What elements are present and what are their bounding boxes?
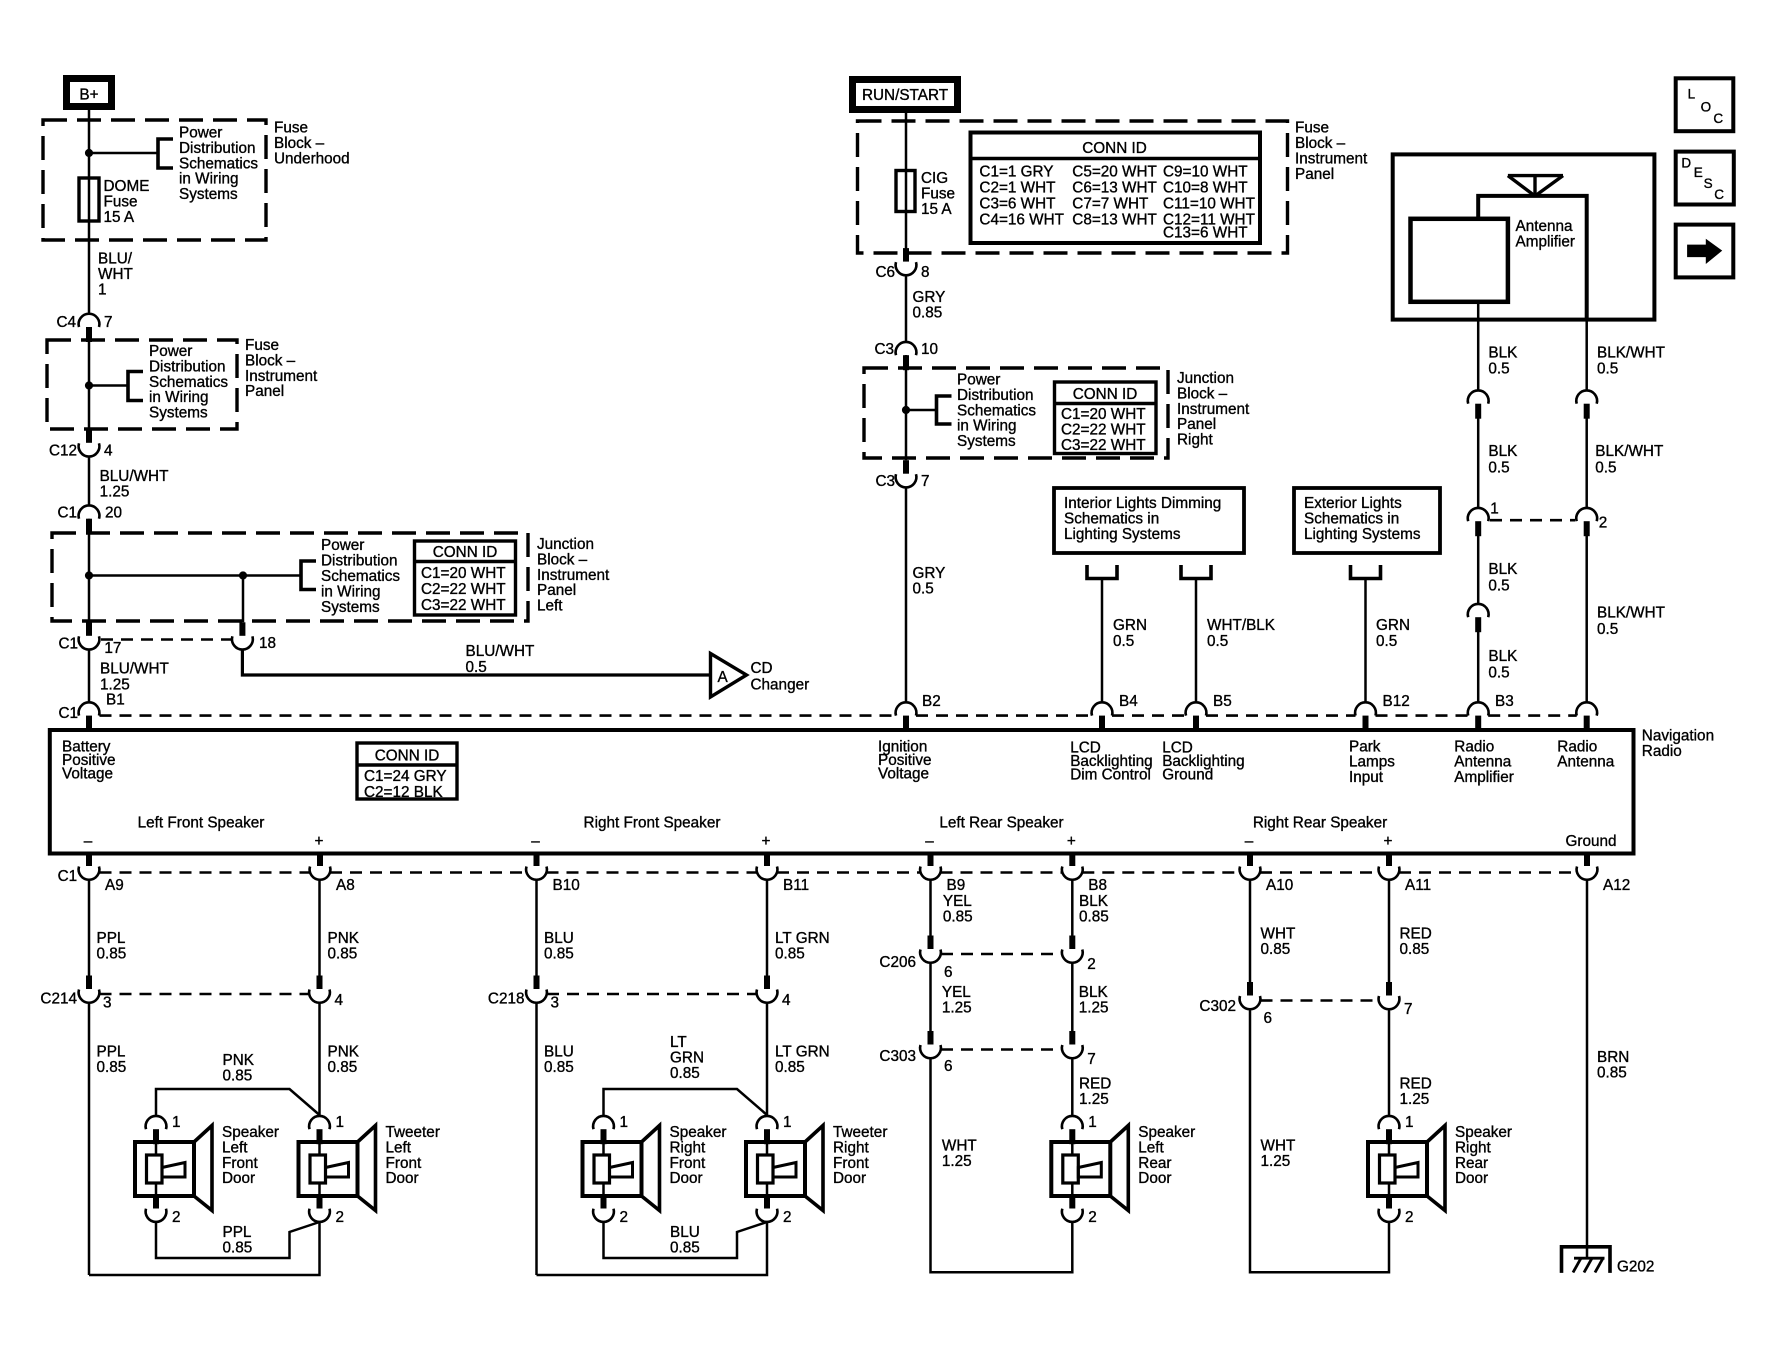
wire RED 1.25 to left rear speaker bbox=[1071, 1058, 1074, 1115]
connector C1 pin 20 bbox=[79, 505, 100, 518]
connector C302 pin 7 bbox=[1386, 982, 1392, 996]
svg-text:C5=20 WHT: C5=20 WHT bbox=[1072, 163, 1157, 180]
svg-text:Systems: Systems bbox=[321, 599, 380, 616]
svg-text:BLU: BLU bbox=[670, 1224, 700, 1241]
svg-text:BLK: BLK bbox=[1488, 443, 1518, 460]
svg-text:RED: RED bbox=[1400, 926, 1432, 943]
svg-text:0.5: 0.5 bbox=[1595, 460, 1616, 477]
svg-text:0.85: 0.85 bbox=[223, 1068, 253, 1085]
wire A11 drop bbox=[1388, 880, 1391, 982]
power node B+ bbox=[67, 79, 112, 107]
svg-text:C1=20 WHT: C1=20 WHT bbox=[421, 565, 506, 582]
svg-text:0.85: 0.85 bbox=[97, 946, 127, 963]
box Exterior Lights Schematics bbox=[1294, 488, 1440, 553]
speaker pin 2 connector (Tweeter Left Front Door) bbox=[317, 1196, 323, 1209]
wire BLU minus to bottom bbox=[535, 1003, 538, 1275]
svg-text:PPL: PPL bbox=[97, 1043, 126, 1060]
connector B5 at radio bbox=[1186, 702, 1207, 715]
wire BLK from amplifier bbox=[1477, 302, 1480, 391]
connector A9 at radio bbox=[79, 867, 100, 880]
svg-text:6: 6 bbox=[1264, 1010, 1273, 1027]
LOC page icon bbox=[1676, 78, 1734, 131]
svg-text:Left: Left bbox=[537, 598, 563, 615]
svg-text:C8=13 WHT: C8=13 WHT bbox=[1072, 211, 1157, 228]
svg-text:GRN: GRN bbox=[1376, 617, 1410, 634]
svg-text:Lighting Systems: Lighting Systems bbox=[1304, 526, 1421, 543]
svg-text:0.5: 0.5 bbox=[1488, 578, 1509, 595]
svg-text:YEL: YEL bbox=[943, 893, 972, 910]
fuse DOME 15 A bbox=[79, 178, 99, 221]
reference bracket (underhood) bbox=[158, 139, 173, 168]
svg-text:D: D bbox=[1681, 156, 1691, 171]
connector C214 pin 3 bbox=[86, 976, 92, 990]
connector B3 at radio bbox=[1468, 702, 1489, 715]
svg-text:Left Front Speaker: Left Front Speaker bbox=[138, 815, 265, 832]
svg-text:Door: Door bbox=[386, 1170, 419, 1187]
svg-text:1.25: 1.25 bbox=[1079, 1091, 1109, 1108]
connector staple B5 bbox=[1181, 565, 1211, 579]
svg-text:0.5: 0.5 bbox=[1207, 633, 1228, 650]
box Interior Lights Dimming Schematics bbox=[1054, 488, 1244, 553]
svg-text:2: 2 bbox=[172, 1209, 181, 1226]
svg-text:C: C bbox=[1714, 187, 1724, 202]
CONN ID table (radio) bbox=[357, 743, 457, 799]
connector (BLK) row 1 bbox=[1468, 390, 1489, 403]
power node RUN/START bbox=[853, 80, 958, 110]
connector B1 at radio bbox=[79, 702, 100, 715]
connector pin 2 (BLK/WHT) bbox=[1576, 508, 1597, 521]
wire C12 to C1 bbox=[88, 457, 91, 506]
connector A12 at radio bbox=[1577, 867, 1598, 880]
svg-text:Systems: Systems bbox=[957, 433, 1016, 450]
svg-text:Dim Control: Dim Control bbox=[1070, 767, 1151, 784]
svg-text:1.25: 1.25 bbox=[1400, 1091, 1430, 1108]
svg-text:0.85: 0.85 bbox=[223, 1240, 253, 1257]
svg-text:A12: A12 bbox=[1603, 877, 1630, 894]
connector pin 1 (BLK) bbox=[1468, 508, 1489, 521]
svg-text:BLU: BLU bbox=[544, 1043, 574, 1060]
svg-text:1: 1 bbox=[783, 1114, 792, 1131]
navigation radio box bbox=[50, 730, 1634, 854]
svg-text:–: – bbox=[1245, 833, 1254, 850]
svg-text:PNK: PNK bbox=[223, 1052, 255, 1069]
connector B9 at radio bbox=[920, 867, 941, 880]
svg-text:PNK: PNK bbox=[328, 1043, 360, 1060]
svg-text:0.85: 0.85 bbox=[913, 305, 943, 322]
wire branch down to terminal 18 bbox=[242, 576, 245, 623]
svg-text:C3=22 WHT: C3=22 WHT bbox=[421, 597, 506, 614]
connector B2 at radio bbox=[896, 702, 917, 715]
svg-text:A9: A9 bbox=[105, 877, 124, 894]
speaker pin 2 connector (Speaker Right Front Door) bbox=[601, 1196, 607, 1209]
svg-text:Door: Door bbox=[1138, 1170, 1171, 1187]
wire branch to reference (IP fuse block) bbox=[89, 384, 128, 387]
svg-text:C1: C1 bbox=[57, 505, 77, 522]
svg-text:0.5: 0.5 bbox=[1488, 361, 1509, 378]
svg-text:7: 7 bbox=[1404, 1001, 1413, 1018]
wire BLU minus drop bbox=[535, 880, 538, 976]
svg-text:RUN/START: RUN/START bbox=[862, 87, 948, 104]
wire A10 drop bbox=[1249, 880, 1252, 982]
wire branch to power distribution reference bbox=[89, 152, 158, 155]
svg-text:0.85: 0.85 bbox=[1400, 941, 1430, 958]
speaker pin 2 connector (Speaker Left Front Door) bbox=[153, 1196, 159, 1209]
speaker pin 1 connector (Speaker Right Front Door) bbox=[593, 1116, 614, 1129]
svg-text:RED: RED bbox=[1079, 1076, 1111, 1093]
svg-text:BLU/: BLU/ bbox=[98, 251, 133, 268]
svg-text:4: 4 bbox=[335, 992, 344, 1009]
wire PPL minus drop bbox=[88, 880, 91, 976]
svg-text:CONN ID: CONN ID bbox=[1073, 386, 1138, 403]
svg-text:CONN ID: CONN ID bbox=[375, 748, 440, 765]
svg-text:4: 4 bbox=[104, 442, 113, 459]
svg-text:C12: C12 bbox=[49, 442, 77, 459]
svg-text:0.5: 0.5 bbox=[1113, 633, 1134, 650]
connector C6 pin 8 bbox=[896, 262, 917, 275]
svg-text:B8: B8 bbox=[1088, 877, 1107, 894]
svg-text:B+: B+ bbox=[79, 87, 98, 104]
svg-text:0.85: 0.85 bbox=[670, 1065, 700, 1082]
svg-text:3: 3 bbox=[103, 995, 112, 1012]
speaker pin 1 connector (Speaker Left Rear Door) bbox=[1062, 1116, 1083, 1129]
svg-text:Right: Right bbox=[1177, 432, 1213, 449]
jumper wire woofer pin2 to tweeter pin2 bbox=[604, 1222, 768, 1258]
svg-text:2: 2 bbox=[1088, 1209, 1097, 1226]
junction node B (junction block left) bbox=[239, 571, 247, 579]
svg-text:0.5: 0.5 bbox=[1597, 361, 1618, 378]
wire B4 down to radio bbox=[1101, 579, 1104, 703]
svg-text:Right Rear Speaker: Right Rear Speaker bbox=[1253, 815, 1387, 832]
svg-text:Changer: Changer bbox=[751, 676, 810, 693]
svg-text:B12: B12 bbox=[1383, 693, 1410, 710]
svg-text:WHT: WHT bbox=[942, 1138, 977, 1155]
svg-text:17: 17 bbox=[104, 640, 121, 657]
svg-text:C10=8 WHT: C10=8 WHT bbox=[1163, 179, 1248, 196]
svg-text:+: + bbox=[762, 833, 771, 850]
svg-text:GRN: GRN bbox=[670, 1050, 704, 1067]
svg-text:2: 2 bbox=[1599, 514, 1608, 531]
svg-text:C13=6 WHT: C13=6 WHT bbox=[1163, 225, 1248, 242]
speaker Tweeter Left Front Door bbox=[299, 1142, 358, 1196]
svg-text:CD: CD bbox=[751, 660, 773, 677]
CONN ID table (IP fuse block) bbox=[971, 133, 1261, 244]
wire B12 down to radio bbox=[1364, 579, 1367, 703]
svg-text:B4: B4 bbox=[1119, 693, 1138, 710]
svg-text:7: 7 bbox=[921, 473, 930, 490]
svg-text:C3: C3 bbox=[874, 341, 894, 358]
speaker pin 2 connector (Tweeter Right Front Door) bbox=[764, 1196, 770, 1209]
wire B5 down to radio bbox=[1195, 579, 1198, 703]
svg-text:C11=10 WHT: C11=10 WHT bbox=[1163, 195, 1255, 212]
svg-text:B3: B3 bbox=[1495, 693, 1514, 710]
svg-text:BLU/WHT: BLU/WHT bbox=[466, 643, 535, 660]
svg-text:B10: B10 bbox=[553, 877, 580, 894]
DESC page icon bbox=[1676, 152, 1734, 205]
svg-text:C6: C6 bbox=[875, 264, 895, 281]
svg-text:WHT: WHT bbox=[1261, 1138, 1296, 1155]
svg-text:1: 1 bbox=[1088, 1114, 1097, 1131]
svg-text:GRN: GRN bbox=[1113, 617, 1147, 634]
connector B12 at radio bbox=[1355, 702, 1376, 715]
svg-text:C1=20 WHT: C1=20 WHT bbox=[1061, 406, 1146, 423]
svg-text:10: 10 bbox=[921, 341, 938, 358]
svg-text:LT GRN: LT GRN bbox=[775, 1043, 830, 1060]
svg-text:C218: C218 bbox=[488, 991, 525, 1008]
svg-text:0.85: 0.85 bbox=[544, 946, 574, 963]
svg-text:A: A bbox=[718, 669, 729, 686]
dashed connector link C303 bbox=[941, 1048, 1062, 1051]
fuse CIG 15 A bbox=[896, 171, 915, 212]
svg-text:Amplifier: Amplifier bbox=[1454, 769, 1514, 786]
svg-text:–: – bbox=[531, 833, 540, 850]
arrow page icon bbox=[1676, 225, 1734, 278]
svg-text:LT GRN: LT GRN bbox=[775, 930, 830, 947]
wire BLK between connectors bbox=[1477, 418, 1480, 509]
wire BLK/WHT to radio antenna input bbox=[1585, 536, 1588, 703]
return wire bottom to tweeter pin 2 bbox=[537, 1222, 768, 1275]
svg-text:20: 20 bbox=[105, 505, 122, 522]
wire PNK to tweeter pin 1 bbox=[318, 1003, 321, 1115]
svg-text:1: 1 bbox=[1490, 501, 1499, 518]
svg-text:1.25: 1.25 bbox=[942, 1153, 972, 1170]
svg-text:BLK: BLK bbox=[1079, 984, 1109, 1001]
wire across junction block left bbox=[89, 574, 301, 577]
svg-text:BLK: BLK bbox=[1488, 345, 1518, 362]
CD changer off-page triangle A bbox=[711, 654, 747, 698]
svg-text:2: 2 bbox=[1405, 1209, 1414, 1226]
svg-text:C1=24 GRY: C1=24 GRY bbox=[364, 768, 447, 785]
connector C218 pin 4 bbox=[764, 976, 770, 990]
svg-text:0.85: 0.85 bbox=[775, 1059, 805, 1076]
svg-text:15 A: 15 A bbox=[104, 209, 135, 226]
connector staple B4 bbox=[1087, 565, 1117, 579]
fuse block instrument panel (dashed) bbox=[47, 340, 237, 429]
speaker pin 1 connector (Speaker Right Rear Door) bbox=[1379, 1116, 1400, 1129]
antenna amplifier inner module outline bbox=[1478, 196, 1587, 320]
ground symbol G202 bbox=[1562, 1247, 1611, 1273]
wire A12 to ground bbox=[1586, 880, 1589, 1258]
wire WHT 1.25 right rear minus bbox=[1250, 1009, 1389, 1272]
svg-text:BLK/WHT: BLK/WHT bbox=[1595, 443, 1663, 460]
svg-text:2: 2 bbox=[336, 1209, 345, 1226]
fuse block underhood (dashed) bbox=[43, 120, 266, 240]
svg-text:O: O bbox=[1701, 100, 1712, 115]
svg-text:Panel: Panel bbox=[245, 383, 284, 400]
svg-text:Door: Door bbox=[670, 1170, 703, 1187]
speaker pin 2 connector (Speaker Right Rear Door) bbox=[1386, 1196, 1392, 1209]
dashed connector link C302 bbox=[1261, 999, 1379, 1002]
svg-text:Right Front Speaker: Right Front Speaker bbox=[584, 815, 721, 832]
svg-text:BLK: BLK bbox=[1488, 561, 1518, 578]
svg-text:Door: Door bbox=[833, 1170, 866, 1187]
svg-text:PNK: PNK bbox=[328, 930, 360, 947]
svg-text:C302: C302 bbox=[1199, 998, 1236, 1015]
svg-text:0.5: 0.5 bbox=[1597, 621, 1618, 638]
wire C6 to C3 bbox=[905, 276, 908, 342]
junction node in IP fuse block bbox=[85, 381, 93, 389]
wire B9 drop bbox=[929, 880, 932, 936]
svg-text:B5: B5 bbox=[1213, 693, 1232, 710]
svg-text:WHT: WHT bbox=[98, 266, 133, 283]
svg-text:BLK: BLK bbox=[1488, 648, 1518, 665]
svg-text:C: C bbox=[1713, 111, 1723, 126]
connector C3 pin 7 bbox=[896, 474, 917, 487]
speaker pin 1 connector (Tweeter Left Front Door) bbox=[309, 1116, 330, 1129]
svg-text:1.25: 1.25 bbox=[1261, 1153, 1291, 1170]
svg-text:1.25: 1.25 bbox=[942, 1000, 972, 1017]
svg-text:1: 1 bbox=[1405, 1114, 1414, 1131]
svg-text:C3=6 WHT: C3=6 WHT bbox=[979, 195, 1055, 212]
connector C206 pin 6 bbox=[928, 936, 934, 950]
dashed connector link 1-2 bbox=[1490, 519, 1575, 522]
svg-text:0.85: 0.85 bbox=[1597, 1065, 1627, 1082]
svg-text:0.5: 0.5 bbox=[1488, 460, 1509, 477]
svg-text:0.85: 0.85 bbox=[97, 1059, 127, 1076]
svg-text:7: 7 bbox=[1087, 1051, 1096, 1068]
svg-text:Left Rear Speaker: Left Rear Speaker bbox=[939, 815, 1063, 832]
svg-text:BLK/WHT: BLK/WHT bbox=[1597, 605, 1665, 622]
svg-text:Underhood: Underhood bbox=[274, 151, 350, 168]
connector C303 pin 7 bbox=[1069, 1031, 1075, 1045]
svg-text:–: – bbox=[925, 833, 934, 850]
svg-text:WHT: WHT bbox=[1261, 926, 1296, 943]
wire LT GRN plus drop bbox=[766, 880, 769, 976]
svg-text:C3: C3 bbox=[875, 473, 895, 490]
svg-text:C4: C4 bbox=[56, 314, 76, 331]
wire RUN/START down through IP fuse block bbox=[905, 113, 908, 250]
junction node (junction block right) bbox=[902, 406, 910, 414]
jumper wire tweeter pin1 to woofer pin1 bbox=[156, 1089, 320, 1115]
svg-text:B11: B11 bbox=[783, 877, 809, 894]
svg-text:Panel: Panel bbox=[1295, 166, 1334, 183]
svg-text:B9: B9 bbox=[947, 877, 966, 894]
wire C3-7 to radio B2 bbox=[905, 488, 908, 703]
wire PNK plus drop bbox=[318, 880, 321, 976]
svg-text:A8: A8 bbox=[336, 877, 355, 894]
svg-text:GRY: GRY bbox=[913, 289, 946, 306]
svg-text:GRY: GRY bbox=[913, 565, 946, 582]
reference bracket (junction block left) bbox=[301, 561, 316, 590]
wire BLK to inline connector bbox=[1477, 536, 1480, 606]
svg-text:4: 4 bbox=[782, 992, 791, 1009]
svg-text:Antenna: Antenna bbox=[1557, 754, 1614, 771]
speaker pin 2 connector (Speaker Left Rear Door) bbox=[1069, 1196, 1075, 1209]
junction block instrument panel left (dashed) bbox=[52, 533, 528, 621]
wire BLK 1.25 bbox=[1071, 963, 1074, 1031]
svg-text:C1=1 GRY: C1=1 GRY bbox=[979, 163, 1053, 180]
svg-text:C1: C1 bbox=[58, 635, 78, 652]
return wire bottom to tweeter pin 2 bbox=[89, 1222, 320, 1275]
dashed bus line above radio bbox=[100, 714, 897, 717]
svg-text:0.85: 0.85 bbox=[1079, 909, 1109, 926]
svg-text:1.25: 1.25 bbox=[100, 484, 130, 501]
dashed bus line below radio bbox=[100, 871, 311, 874]
connector C302 pin 6 bbox=[1247, 982, 1253, 996]
connector terminal 18 bbox=[232, 636, 253, 649]
connector C4 pin 7 bbox=[79, 314, 100, 327]
antenna amplifier outer box bbox=[1393, 154, 1655, 319]
svg-text:BLU: BLU bbox=[544, 930, 574, 947]
connector C303 pin 6 bbox=[928, 1031, 934, 1045]
dashed connector link C218 bbox=[547, 993, 757, 996]
svg-text:8: 8 bbox=[921, 264, 930, 281]
svg-text:BLK/WHT: BLK/WHT bbox=[1597, 345, 1665, 362]
wire BLK/WHT between connectors bbox=[1585, 418, 1588, 509]
svg-text:L: L bbox=[1688, 86, 1696, 101]
svg-text:0.5: 0.5 bbox=[466, 659, 487, 676]
wire through junction block left bbox=[88, 519, 91, 623]
svg-text:C2=22 WHT: C2=22 WHT bbox=[421, 581, 506, 598]
svg-text:Amplifier: Amplifier bbox=[1516, 233, 1576, 250]
connector A8 at radio bbox=[310, 867, 331, 880]
svg-text:1: 1 bbox=[620, 1114, 629, 1131]
svg-text:PPL: PPL bbox=[97, 930, 126, 947]
svg-text:18: 18 bbox=[259, 635, 276, 652]
svg-text:2: 2 bbox=[620, 1209, 629, 1226]
speaker pin 1 connector (Tweeter Right Front Door) bbox=[757, 1116, 778, 1129]
svg-text:0.5: 0.5 bbox=[1488, 665, 1509, 682]
svg-text:Radio: Radio bbox=[1642, 743, 1682, 760]
svg-text:CONN ID: CONN ID bbox=[1082, 140, 1147, 157]
CONN ID table (junction block left) bbox=[415, 541, 516, 615]
svg-text:Systems: Systems bbox=[179, 186, 238, 203]
svg-text:C2=22 WHT: C2=22 WHT bbox=[1061, 422, 1146, 439]
svg-text:1: 1 bbox=[172, 1114, 181, 1131]
svg-text:2: 2 bbox=[1087, 956, 1096, 973]
svg-text:Ground: Ground bbox=[1566, 833, 1617, 850]
svg-text:C4=16 WHT: C4=16 WHT bbox=[979, 211, 1064, 228]
svg-text:+: + bbox=[1067, 833, 1076, 850]
speaker Tweeter Right Front Door bbox=[746, 1142, 805, 1196]
reference bracket (IP fuse block) bbox=[128, 372, 143, 401]
svg-text:Voltage: Voltage bbox=[62, 766, 113, 783]
svg-text:Voltage: Voltage bbox=[878, 766, 929, 783]
svg-text:1: 1 bbox=[336, 1114, 345, 1131]
svg-text:6: 6 bbox=[944, 964, 953, 981]
svg-text:Lighting Systems: Lighting Systems bbox=[1064, 526, 1181, 543]
jumper wire tweeter pin1 to woofer pin1 bbox=[604, 1089, 768, 1115]
svg-text:YEL: YEL bbox=[942, 984, 971, 1001]
speaker Speaker Left Front Door bbox=[135, 1142, 194, 1196]
inline connector (BLK) row 3 bbox=[1468, 604, 1489, 617]
svg-text:0.85: 0.85 bbox=[328, 1059, 358, 1076]
svg-text:C1: C1 bbox=[58, 868, 78, 885]
svg-text:0.85: 0.85 bbox=[544, 1059, 574, 1076]
svg-text:CONN ID: CONN ID bbox=[433, 544, 498, 561]
connector C218 pin 3 bbox=[534, 976, 540, 990]
reference bracket (junction block right) bbox=[937, 396, 952, 424]
svg-text:S: S bbox=[1704, 176, 1713, 191]
svg-text:B1: B1 bbox=[106, 692, 125, 709]
junction block instrument panel right (dashed) bbox=[864, 368, 1168, 458]
jumper wire woofer pin2 to tweeter pin2 bbox=[156, 1222, 320, 1258]
svg-text:0.85: 0.85 bbox=[670, 1240, 700, 1257]
svg-text:1: 1 bbox=[98, 282, 107, 299]
CONN ID table (junction block right) bbox=[1055, 382, 1157, 454]
svg-text:G202: G202 bbox=[1617, 1259, 1654, 1276]
connector B11 at radio bbox=[757, 867, 778, 880]
svg-text:A10: A10 bbox=[1266, 877, 1293, 894]
svg-text:+: + bbox=[315, 833, 324, 850]
svg-text:BLK: BLK bbox=[1079, 893, 1109, 910]
wire terminal 18 to CD changer bbox=[242, 650, 710, 675]
svg-text:A11: A11 bbox=[1405, 877, 1431, 894]
connector C1 pin 17 bbox=[79, 636, 100, 649]
connector A11 at radio bbox=[1379, 867, 1400, 880]
speaker Speaker Left Rear Door bbox=[1051, 1142, 1110, 1196]
svg-text:Door: Door bbox=[1455, 1170, 1488, 1187]
svg-text:C303: C303 bbox=[879, 1048, 916, 1065]
